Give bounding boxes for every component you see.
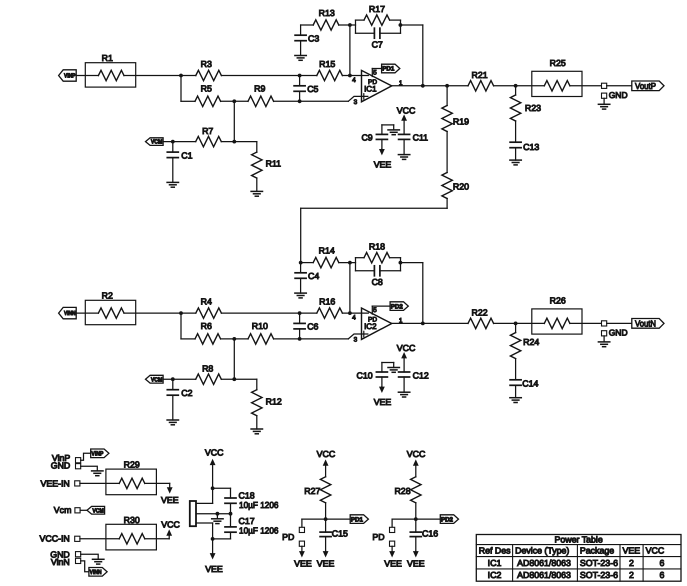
svg-text:R19: R19 xyxy=(453,116,469,126)
svg-text:2: 2 xyxy=(629,570,634,580)
svg-text:R7: R7 xyxy=(202,126,213,136)
svg-text:R14: R14 xyxy=(319,246,335,256)
svg-text:VCM: VCM xyxy=(151,139,163,146)
svg-text:6: 6 xyxy=(660,570,665,580)
svg-text:PD2: PD2 xyxy=(441,516,454,523)
svg-text:R10: R10 xyxy=(252,321,268,331)
svg-text:VCC: VCC xyxy=(161,519,180,529)
svg-text:R25: R25 xyxy=(550,58,566,68)
svg-text:10µF 1206: 10µF 1206 xyxy=(239,526,279,536)
svg-text:R2: R2 xyxy=(102,291,113,301)
svg-text:C7: C7 xyxy=(372,39,383,49)
svg-text:10µF 1206: 10µF 1206 xyxy=(239,500,279,510)
svg-text:R1: R1 xyxy=(102,53,113,63)
svg-text:PD1: PD1 xyxy=(351,516,364,523)
svg-text:R16: R16 xyxy=(319,297,335,307)
svg-text:SOT-23-6: SOT-23-6 xyxy=(580,558,618,568)
svg-text:VEE: VEE xyxy=(374,160,392,170)
svg-text:IC1: IC1 xyxy=(488,558,502,568)
svg-text:C1: C1 xyxy=(181,150,192,160)
svg-text:VEE: VEE xyxy=(623,546,641,556)
svg-text:VINP: VINP xyxy=(91,451,103,458)
svg-text:VEE: VEE xyxy=(161,495,179,505)
svg-text:GND: GND xyxy=(609,328,628,338)
svg-text:VCC: VCC xyxy=(205,448,224,458)
svg-text:C2: C2 xyxy=(181,388,192,398)
svg-text:GND: GND xyxy=(609,90,628,100)
svg-text:SOT-23-6: SOT-23-6 xyxy=(580,570,618,580)
svg-text:C10: C10 xyxy=(357,370,373,380)
svg-text:Vcm: Vcm xyxy=(54,505,72,515)
svg-text:C15: C15 xyxy=(332,529,348,539)
svg-text:VINN: VINN xyxy=(64,310,76,317)
svg-text:VEE: VEE xyxy=(407,559,425,569)
svg-text:VEE-IN: VEE-IN xyxy=(40,478,69,488)
svg-text:R26: R26 xyxy=(550,296,566,306)
svg-text:Ref Des: Ref Des xyxy=(479,546,511,556)
svg-text:PD: PD xyxy=(372,532,384,542)
svg-text:6: 6 xyxy=(660,558,665,568)
svg-text:R30: R30 xyxy=(124,515,140,525)
svg-text:4: 4 xyxy=(352,77,356,84)
svg-text:VCC: VCC xyxy=(317,449,336,459)
svg-text:AD8061/8063: AD8061/8063 xyxy=(517,558,571,568)
svg-text:R8: R8 xyxy=(202,363,213,373)
svg-text:R21: R21 xyxy=(472,70,488,80)
svg-text:5: 5 xyxy=(373,70,377,77)
svg-text:VEE: VEE xyxy=(374,397,392,407)
svg-text:R6: R6 xyxy=(201,321,212,331)
svg-text:PD2: PD2 xyxy=(391,303,404,310)
svg-text:VCM: VCM xyxy=(151,376,163,383)
svg-text:VCC: VCC xyxy=(407,449,426,459)
svg-text:C5: C5 xyxy=(307,84,318,94)
svg-text:C16: C16 xyxy=(422,529,438,539)
svg-text:R15: R15 xyxy=(319,59,335,69)
svg-text:VCC: VCC xyxy=(646,546,665,556)
svg-text:2: 2 xyxy=(629,558,634,568)
svg-text:C6: C6 xyxy=(307,322,318,332)
svg-text:PD1: PD1 xyxy=(382,66,395,73)
svg-text:C8: C8 xyxy=(372,277,383,287)
svg-text:VEE: VEE xyxy=(294,559,312,569)
svg-text:R11: R11 xyxy=(266,159,282,169)
svg-text:VCC-IN: VCC-IN xyxy=(39,534,69,544)
svg-text:C14: C14 xyxy=(522,378,538,388)
svg-text:R4: R4 xyxy=(201,297,212,307)
svg-text:R24: R24 xyxy=(523,337,539,347)
svg-text:C12: C12 xyxy=(413,370,429,380)
svg-text:5: 5 xyxy=(373,307,377,314)
svg-text:VINN: VINN xyxy=(90,569,102,576)
svg-text:C9: C9 xyxy=(361,133,372,143)
svg-text:R18: R18 xyxy=(369,242,385,252)
svg-text:C3: C3 xyxy=(308,33,319,43)
svg-text:C11: C11 xyxy=(413,133,429,143)
svg-text:VEE: VEE xyxy=(205,564,223,574)
svg-text:Device (Type): Device (Type) xyxy=(515,546,569,556)
svg-text:R13: R13 xyxy=(319,8,335,18)
svg-text:R28: R28 xyxy=(394,486,410,496)
svg-text:VCC: VCC xyxy=(397,343,416,353)
svg-text:VoutN: VoutN xyxy=(635,319,656,329)
svg-text:AD8061/8063: AD8061/8063 xyxy=(517,570,571,580)
svg-text:VoutP: VoutP xyxy=(635,81,656,91)
svg-text:R5: R5 xyxy=(201,84,212,94)
svg-text:VCC: VCC xyxy=(397,105,416,115)
svg-text:R23: R23 xyxy=(525,103,541,113)
svg-text:R12: R12 xyxy=(266,396,282,406)
svg-text:R17: R17 xyxy=(369,4,385,14)
svg-text:3: 3 xyxy=(354,336,358,343)
svg-text:R3: R3 xyxy=(201,59,212,69)
svg-text:R22: R22 xyxy=(472,308,488,318)
svg-text:VEE: VEE xyxy=(384,559,402,569)
svg-text:Power Table: Power Table xyxy=(554,535,602,545)
svg-text:R20: R20 xyxy=(453,182,469,192)
svg-text:VinN: VinN xyxy=(51,557,70,567)
svg-text:R27: R27 xyxy=(304,486,320,496)
svg-text:IC1: IC1 xyxy=(364,84,377,93)
svg-text:GND: GND xyxy=(51,461,71,471)
svg-text:VINP: VINP xyxy=(64,73,76,80)
svg-text:VCM: VCM xyxy=(92,507,104,514)
svg-text:C4: C4 xyxy=(308,271,319,281)
svg-text:4: 4 xyxy=(352,314,356,321)
svg-text:C13: C13 xyxy=(523,142,539,152)
svg-text:IC2: IC2 xyxy=(364,322,377,331)
svg-text:Package: Package xyxy=(580,546,614,556)
svg-text:IC2: IC2 xyxy=(488,570,502,580)
svg-text:PD: PD xyxy=(282,532,294,542)
svg-text:R9: R9 xyxy=(254,84,265,94)
svg-text:3: 3 xyxy=(354,99,358,106)
svg-text:C17: C17 xyxy=(239,516,255,526)
svg-text:R29: R29 xyxy=(124,460,140,470)
svg-text:VEE: VEE xyxy=(317,559,335,569)
